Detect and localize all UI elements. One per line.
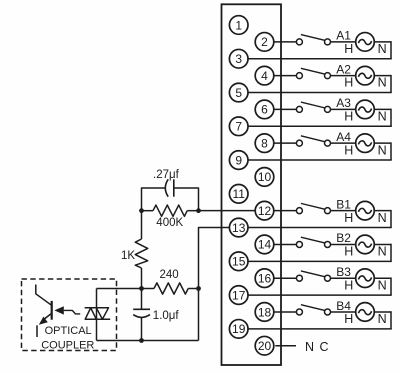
- wire return to terminal 15: [248, 260, 392, 262]
- switch A3 blade: [301, 102, 325, 108]
- wire terminal 2 to switch A1: [274, 41, 297, 43]
- node junction 240 left: [139, 286, 144, 291]
- terminal 1: [229, 16, 248, 35]
- label N (A1): [378, 42, 387, 56]
- triac U1: [85, 308, 111, 319]
- wire switch B4 to source: [331, 311, 356, 313]
- terminal 6: [255, 100, 274, 119]
- terminal 9: [229, 151, 248, 170]
- svg-text:3: 3: [235, 52, 242, 66]
- wire source B2 to corner: [374, 243, 391, 245]
- svg-text:H: H: [344, 42, 353, 56]
- AC source B1: [356, 201, 375, 220]
- label N (A2): [378, 76, 387, 90]
- switch A1 left contact: [296, 39, 302, 45]
- wire right edge B2: [390, 244, 392, 262]
- wire triac top to junction: [97, 288, 142, 290]
- svg-text:19: 19: [232, 322, 246, 336]
- svg-text:N: N: [305, 340, 314, 354]
- wire junction to cap: [141, 289, 143, 310]
- switch B2 blade: [301, 237, 325, 243]
- resistor R1 400K: [153, 205, 187, 216]
- label A3: [336, 96, 351, 110]
- label B3: [336, 265, 351, 279]
- svg-text:N: N: [378, 312, 387, 326]
- wire right edge A2: [390, 75, 392, 93]
- svg-text:N: N: [378, 278, 387, 292]
- wire source A4 to corner: [374, 142, 391, 144]
- switch A1 right contact: [325, 39, 331, 45]
- svg-text:N: N: [378, 42, 387, 56]
- wire terminal 12 to switch B1: [274, 210, 297, 212]
- terminal 20: [255, 336, 274, 355]
- capacitor C2 1.0uf: [133, 309, 150, 317]
- wire switch A1 to source: [331, 41, 356, 43]
- svg-text:2: 2: [261, 35, 268, 49]
- svg-text:N: N: [378, 211, 387, 225]
- optical coupler dashed box: [22, 279, 117, 351]
- wire return to terminal 17: [248, 294, 392, 296]
- switch A2 left contact: [296, 73, 302, 79]
- terminal 3: [229, 49, 248, 68]
- wire switch A2 to source: [331, 75, 356, 77]
- wire return to terminal 19: [248, 328, 392, 330]
- svg-text:B1: B1: [336, 197, 351, 211]
- wire right edge A1: [390, 41, 392, 59]
- svg-text:C: C: [320, 340, 329, 354]
- node junction left RC: [139, 208, 144, 213]
- wire switch B2 to source: [331, 243, 356, 245]
- AC source A3: [356, 100, 375, 119]
- wire junction to terminal 12: [199, 210, 256, 212]
- node junction right RC: [196, 208, 201, 213]
- resistor R3 240: [154, 283, 188, 294]
- svg-text:5: 5: [235, 86, 242, 100]
- switch B1 blade: [301, 203, 325, 209]
- label H (A2): [344, 76, 353, 90]
- wire source B1 to corner: [374, 210, 391, 212]
- terminal block outline: [222, 4, 282, 365]
- svg-text:8: 8: [261, 136, 268, 150]
- svg-text:N: N: [378, 245, 387, 259]
- switch B1 left contact: [296, 208, 302, 214]
- wire cap branch left: [142, 188, 166, 211]
- terminal 19: [229, 320, 248, 339]
- AC source A1: [356, 33, 375, 52]
- wire cap branch right: [174, 188, 199, 211]
- label N (B3): [378, 278, 387, 292]
- label B4: [336, 299, 351, 313]
- svg-text:H: H: [344, 143, 353, 157]
- wire return to terminal 13: [248, 227, 392, 229]
- label A2: [336, 62, 351, 76]
- label N (B1): [378, 211, 387, 225]
- svg-text:4: 4: [261, 69, 268, 83]
- terminal 12: [255, 201, 274, 220]
- AC source A4: [356, 134, 375, 153]
- svg-text:H: H: [344, 278, 353, 292]
- label .27uf: [153, 169, 180, 181]
- svg-text:H: H: [344, 245, 353, 259]
- label H (B4): [344, 312, 353, 326]
- label 1K: [121, 250, 135, 262]
- switch B1 right contact: [325, 208, 331, 214]
- switch A4 right contact: [325, 140, 331, 146]
- transistor Q1 base bar: [51, 301, 53, 320]
- wire right edge B1: [390, 210, 392, 228]
- wire junction to 1K: [141, 211, 143, 239]
- terminal 2: [255, 33, 274, 52]
- label 1.0uf: [153, 310, 180, 322]
- wire terminal 6 to switch A3: [274, 108, 297, 110]
- svg-text:COUPLER: COUPLER: [41, 339, 94, 351]
- svg-text:A3: A3: [336, 96, 351, 110]
- switch A3 left contact: [296, 106, 302, 112]
- terminal 13: [229, 218, 248, 237]
- svg-text:B2: B2: [336, 231, 351, 245]
- AC source B2: [356, 235, 375, 254]
- wire switch B1 to source: [331, 210, 356, 212]
- terminal 7: [229, 117, 248, 136]
- terminal 16: [255, 269, 274, 288]
- switch B4 left contact: [296, 309, 302, 315]
- switch A2 blade: [301, 68, 325, 74]
- terminal 18: [255, 303, 274, 322]
- wire bottom: [97, 340, 199, 342]
- switch B4 blade: [301, 305, 325, 311]
- wire source B3 to corner: [374, 277, 391, 279]
- svg-text:A1: A1: [336, 29, 351, 43]
- label H (B1): [344, 211, 353, 225]
- label B2: [336, 231, 351, 245]
- svg-text:9: 9: [235, 153, 242, 167]
- node junction 240 right: [196, 286, 201, 291]
- terminal 11: [229, 185, 248, 204]
- switch B4 right contact: [325, 309, 331, 315]
- light arrow: [54, 306, 80, 314]
- svg-text:15: 15: [232, 255, 246, 269]
- label OPTICAL: [45, 325, 92, 337]
- transistor Q1 collector lead: [36, 285, 52, 306]
- AC source B3: [356, 269, 375, 288]
- wire switch B3 to source: [331, 277, 356, 279]
- wire terminal 18 to switch B4: [274, 311, 297, 313]
- wire right edge A3: [390, 109, 392, 127]
- svg-text:18: 18: [258, 305, 272, 319]
- transistor Q1 emitter lead: [36, 325, 38, 337]
- svg-text:17: 17: [232, 288, 246, 302]
- switch A4 left contact: [296, 140, 302, 146]
- wire source A3 to corner: [374, 108, 391, 110]
- label N (B4): [378, 312, 387, 326]
- wire terminal 20 stub: [275, 345, 296, 347]
- label N (A4): [378, 143, 387, 157]
- svg-text:N: N: [378, 76, 387, 90]
- terminal 17: [229, 286, 248, 305]
- switch B3 left contact: [296, 275, 302, 281]
- svg-text:14: 14: [258, 238, 272, 252]
- wire right edge A4: [390, 142, 392, 160]
- AC source A2: [356, 66, 375, 85]
- wire terminal 8 to switch A4: [274, 142, 297, 144]
- switch A2 right contact: [325, 73, 331, 79]
- label H (A4): [344, 143, 353, 157]
- label N (B2): [378, 245, 387, 259]
- svg-text:H: H: [344, 312, 353, 326]
- terminal 8: [255, 134, 274, 153]
- svg-text:N: N: [378, 110, 387, 124]
- terminal 5: [229, 83, 248, 102]
- svg-text:12: 12: [258, 204, 272, 218]
- svg-text:20: 20: [258, 339, 272, 353]
- AC source B4: [356, 303, 375, 322]
- terminal 10: [255, 168, 274, 187]
- switch B3 blade: [301, 271, 325, 277]
- label COUPLER: [41, 339, 94, 351]
- wire return to terminal 5: [248, 92, 392, 94]
- svg-text:OPTICAL: OPTICAL: [45, 325, 92, 337]
- svg-text:240: 240: [160, 269, 179, 281]
- svg-text:N: N: [378, 143, 387, 157]
- svg-text:A2: A2: [336, 62, 351, 76]
- switch B2 right contact: [325, 241, 331, 247]
- wire terminal 4 to switch A2: [274, 75, 297, 77]
- svg-text:H: H: [344, 76, 353, 90]
- wire terminal 16 to switch B3: [274, 277, 297, 279]
- terminal 4: [255, 66, 274, 85]
- svg-text:H: H: [344, 110, 353, 124]
- label A4: [336, 130, 351, 144]
- label A1: [336, 29, 351, 43]
- wire return to terminal 3: [248, 58, 392, 60]
- wire 240 to junction: [188, 288, 198, 290]
- svg-text:7: 7: [235, 120, 242, 134]
- wire source A1 to corner: [374, 41, 391, 43]
- svg-text:6: 6: [261, 103, 268, 117]
- wire switch A4 to source: [331, 142, 356, 144]
- label H (A1): [344, 42, 353, 56]
- svg-text:1K: 1K: [121, 250, 135, 262]
- switch A4 blade: [301, 136, 325, 142]
- label N (A3): [378, 110, 387, 124]
- label B1: [336, 197, 351, 211]
- svg-text:1: 1: [235, 18, 242, 32]
- switch A3 right contact: [325, 106, 331, 112]
- wire terminal 14 to switch B2: [274, 243, 297, 245]
- svg-text:400K: 400K: [156, 217, 183, 229]
- capacitor C1 .27uf: [165, 179, 174, 196]
- node junction bottom: [139, 338, 144, 343]
- svg-text:1.0μf: 1.0μf: [153, 310, 180, 322]
- label H (B3): [344, 278, 353, 292]
- switch B3 right contact: [325, 275, 331, 281]
- svg-text:16: 16: [258, 272, 272, 286]
- wire cap to bottom: [141, 317, 143, 340]
- terminal 15: [229, 252, 248, 271]
- wire right edge B3: [390, 277, 392, 295]
- wire switch A3 to source: [331, 108, 356, 110]
- switch A1 blade: [301, 35, 325, 41]
- label 400K: [156, 217, 183, 229]
- wire return to terminal 7: [248, 125, 392, 127]
- wire 1K to junction: [141, 268, 143, 289]
- terminal 14: [255, 235, 274, 254]
- svg-text:13: 13: [232, 221, 246, 235]
- wire source A2 to corner: [374, 75, 391, 77]
- svg-text:A4: A4: [336, 130, 351, 144]
- resistor R2 1K: [135, 239, 147, 268]
- label H (B2): [344, 245, 353, 259]
- svg-text:.27μf: .27μf: [153, 169, 180, 181]
- triac vertical lead: [96, 289, 98, 341]
- label N C: [305, 340, 329, 354]
- svg-text:H: H: [344, 211, 353, 225]
- wire right edge B4: [390, 311, 392, 329]
- wire 400K to junction: [187, 210, 198, 212]
- switch B2 left contact: [296, 241, 302, 247]
- wire to 400K: [142, 210, 154, 212]
- transistor Q1 emitter: [39, 314, 52, 325]
- svg-text:B3: B3: [336, 265, 351, 279]
- wire terminal 13 branch: [199, 228, 230, 341]
- label H (A3): [344, 110, 353, 124]
- label 240: [160, 269, 179, 281]
- wire return to terminal 9: [248, 159, 392, 161]
- svg-text:10: 10: [258, 170, 272, 184]
- wire junction to 240: [142, 288, 155, 290]
- wire source B4 to corner: [374, 311, 391, 313]
- svg-text:11: 11: [232, 187, 245, 201]
- svg-text:B4: B4: [336, 299, 351, 313]
